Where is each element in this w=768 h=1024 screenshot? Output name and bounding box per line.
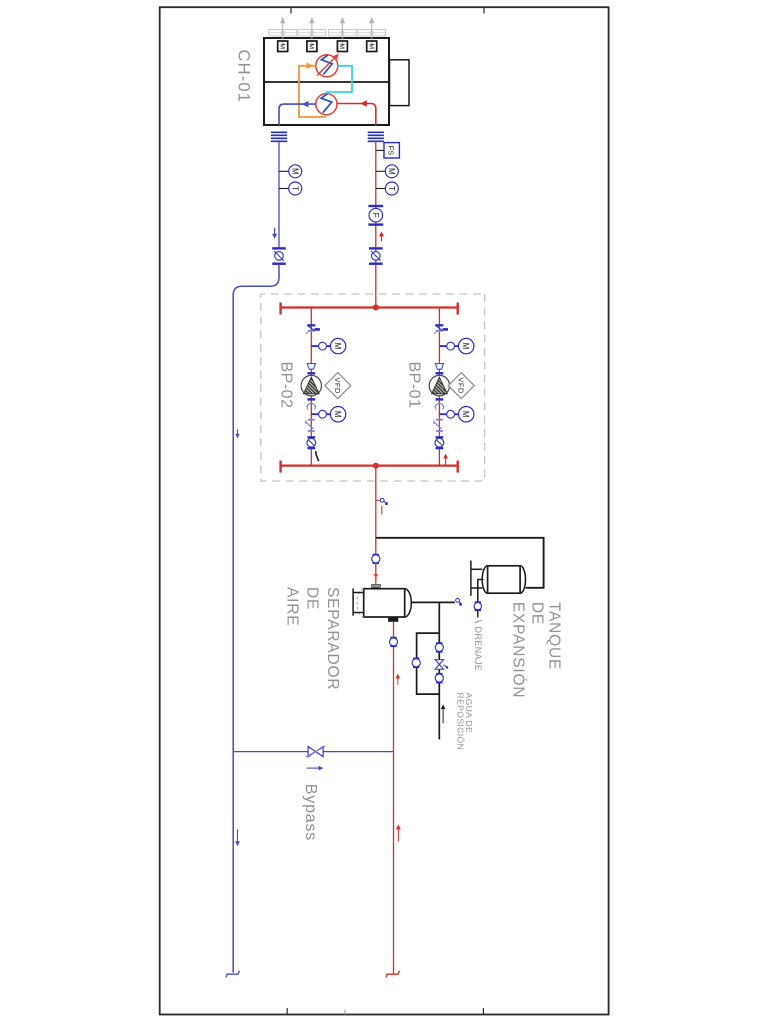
pump group dashed enclosure <box>261 294 485 481</box>
manometer M 2 BP-01 <box>455 413 459 415</box>
tank drain line <box>478 580 484 602</box>
separator outlet nozzle <box>388 617 398 622</box>
return pipe inside chiller <box>337 104 376 126</box>
supply pipe <box>278 141 280 248</box>
bypass pipe <box>233 751 393 753</box>
pump suction flange BP-01 <box>436 398 444 400</box>
discharge header cap bottom <box>279 303 281 315</box>
fan airflow arrow 4 <box>280 17 285 47</box>
condenser fan 1 <box>358 30 386 36</box>
evaporator HX <box>316 94 337 115</box>
return pipe <box>375 141 377 307</box>
supply flow arrow 3 <box>235 829 240 846</box>
svg-text:F: F <box>371 213 381 218</box>
supply flow arrow 4 <box>235 429 239 438</box>
thermometer stub T supply <box>279 188 288 190</box>
pump discharge header <box>281 306 458 308</box>
border tick left <box>483 7 485 13</box>
flow meter F <box>368 205 383 207</box>
separator stand <box>352 588 354 615</box>
return main to separator <box>375 466 377 555</box>
supply pipe to riser <box>233 264 279 973</box>
butterfly valve suction BP-02 <box>307 436 315 438</box>
gate valve discharge BP-01 <box>435 324 443 326</box>
suction junction node <box>373 463 379 469</box>
condenser fan 2 <box>329 30 357 36</box>
svg-text:CH-01: CH-01 <box>235 50 253 104</box>
svg-text:SEPARADOR: SEPARADOR <box>324 587 341 690</box>
border tick right lower <box>286 1008 288 1015</box>
svg-text:M: M <box>461 411 470 418</box>
svg-text:M: M <box>333 411 342 418</box>
VFD diamond BP-01 <box>448 373 474 399</box>
svg-text:BP-02: BP-02 <box>278 362 295 409</box>
condenser fan 4 <box>269 30 297 36</box>
pipe valve to separator <box>375 563 377 583</box>
butterfly valve supply <box>272 247 286 249</box>
return flow arrow <box>360 100 367 106</box>
fan airflow arrow 3 <box>309 17 314 47</box>
chiller CH-01 body <box>264 38 389 125</box>
manometer M 2 BP-02 <box>326 413 330 415</box>
orange flow arrow <box>307 63 314 69</box>
svg-text:VFD: VFD <box>457 377 466 394</box>
svg-text:DRENAJE: DRENAJE <box>473 627 483 672</box>
discharge header cap top <box>457 303 459 315</box>
gauge cock 2 BP-01 <box>439 413 446 415</box>
suction header cap top <box>457 461 459 473</box>
make-up main <box>438 633 440 739</box>
thermometer T return <box>385 182 398 195</box>
return flow arrow B <box>396 824 401 841</box>
compressor box 2 <box>337 41 347 52</box>
chiller top box <box>390 60 410 106</box>
pipe branch BP-02 <box>310 308 312 466</box>
check valve BP-02 <box>308 419 315 421</box>
make-up flow arrow <box>441 704 445 723</box>
supply pipe inside chiller <box>279 104 316 125</box>
expansion line <box>376 538 544 588</box>
tank stand <box>470 561 472 596</box>
svg-text:M: M <box>367 43 374 49</box>
condenser fan 3 <box>298 30 326 36</box>
svg-text:M: M <box>338 43 345 49</box>
refrigerant line orange <box>299 66 326 117</box>
manometer M BP-01 <box>455 345 459 347</box>
refrigerant line cyan <box>327 66 352 94</box>
svg-text:M: M <box>333 343 342 350</box>
flow switch stub <box>376 149 384 151</box>
svg-text:T: T <box>387 186 396 191</box>
svg-text:M: M <box>387 168 396 175</box>
manometer M BP-02 <box>326 345 330 347</box>
drain tick <box>475 621 482 623</box>
svg-text:FS: FS <box>386 146 395 156</box>
supply flow arrow <box>302 101 309 107</box>
suction header cap bottom <box>279 461 281 473</box>
butterfly valve suction BP-01 <box>436 436 444 438</box>
return end break <box>386 971 400 978</box>
return riser <box>393 622 395 974</box>
butterfly valve return <box>369 247 383 249</box>
strainer handle BP-02 <box>316 451 319 461</box>
svg-text:TANQUE: TANQUE <box>546 602 563 670</box>
compressor box 1 <box>367 41 377 52</box>
manometer stub M supply <box>279 170 288 172</box>
PRV bypass loop <box>417 633 440 694</box>
svg-text:DE: DE <box>304 587 321 610</box>
bypass flow arrow <box>307 766 324 771</box>
svg-text:REPOSICIÓN: REPOSICIÓN <box>455 693 465 751</box>
svg-text:M: M <box>290 168 299 175</box>
flex connector supply <box>271 131 287 133</box>
svg-text:BP-01: BP-01 <box>406 362 423 409</box>
reducer BP-02 <box>307 364 315 370</box>
flex coupling BP-02 <box>307 403 315 407</box>
pipe branch BP-01 <box>438 308 440 466</box>
svg-text:Bypass: Bypass <box>302 784 319 841</box>
tank drain valve <box>475 601 481 603</box>
flex connector return <box>368 131 384 133</box>
flow arrow into separator <box>374 570 378 579</box>
manometer M return <box>385 165 398 178</box>
separator vent line <box>411 601 454 603</box>
VFD diamond BP-02 <box>325 373 351 399</box>
svg-text:AIRE: AIRE <box>284 587 301 626</box>
fan airflow arrow 1 <box>369 17 374 47</box>
auto air vent <box>456 598 460 602</box>
shutoff valve before separator <box>373 554 379 556</box>
gauge cock BP-01 <box>439 345 446 347</box>
pump discharge flange BP-01 <box>436 372 444 374</box>
svg-text:DE: DE <box>529 602 546 625</box>
gauge cock BP-02 <box>311 345 318 347</box>
reducer BP-01 <box>435 364 443 370</box>
svg-text:VFD: VFD <box>333 377 342 394</box>
border tick left 2 <box>290 7 292 13</box>
svg-text:M: M <box>278 43 285 49</box>
gate valve discharge BP-02 <box>307 324 315 326</box>
fan airflow arrow 2 <box>340 17 345 47</box>
make-up tee <box>438 602 440 633</box>
discharge junction node <box>373 305 379 311</box>
svg-text:M: M <box>308 43 315 49</box>
air separator body <box>364 589 405 617</box>
supply end break <box>226 971 240 978</box>
compressor box 3 <box>307 41 317 52</box>
bypass valve <box>316 747 324 757</box>
border tick right mid <box>344 1010 346 1015</box>
svg-text:EXPANSIÓN: EXPANSIÓN <box>510 602 527 699</box>
pump BP-02 <box>301 375 321 395</box>
svg-text:M: M <box>461 343 470 350</box>
border frame <box>160 7 609 1014</box>
gauge cock 2 BP-02 <box>311 413 318 415</box>
flow switch FS <box>384 143 399 158</box>
flow arrow into BP-01 <box>443 454 448 466</box>
supply flow arrow 2 <box>272 228 277 239</box>
valve makeup 1 <box>436 642 442 644</box>
valve makeup bypass <box>413 657 419 659</box>
manometer stub M return <box>376 170 385 172</box>
expansion tank body <box>488 566 520 593</box>
compressor box 4 <box>278 41 288 52</box>
check valve BP-01 <box>436 419 443 421</box>
pump suction flange BP-02 <box>307 398 315 400</box>
chiller section divider <box>264 81 389 83</box>
valve makeup 2 <box>436 673 442 675</box>
pump BP-01 <box>429 375 449 395</box>
flex coupling BP-01 <box>435 403 443 407</box>
drain dash <box>381 506 383 515</box>
thermometer stub T return <box>376 188 385 190</box>
air vent on main <box>376 499 381 501</box>
svg-text:T: T <box>290 186 299 191</box>
thermometer T supply <box>289 182 302 195</box>
pressure reducing valve <box>435 660 443 665</box>
pump discharge flange BP-02 <box>307 372 315 374</box>
pump suction header <box>281 465 458 467</box>
condenser arrow <box>317 54 339 76</box>
condenser HX <box>316 55 338 77</box>
return flow arrow 2 <box>379 231 384 241</box>
separator inlet flange <box>371 584 380 587</box>
return flow arrow A <box>396 674 401 685</box>
border tick right upper <box>482 1008 484 1015</box>
manometer M supply <box>289 165 302 178</box>
valve after separator <box>390 637 396 639</box>
